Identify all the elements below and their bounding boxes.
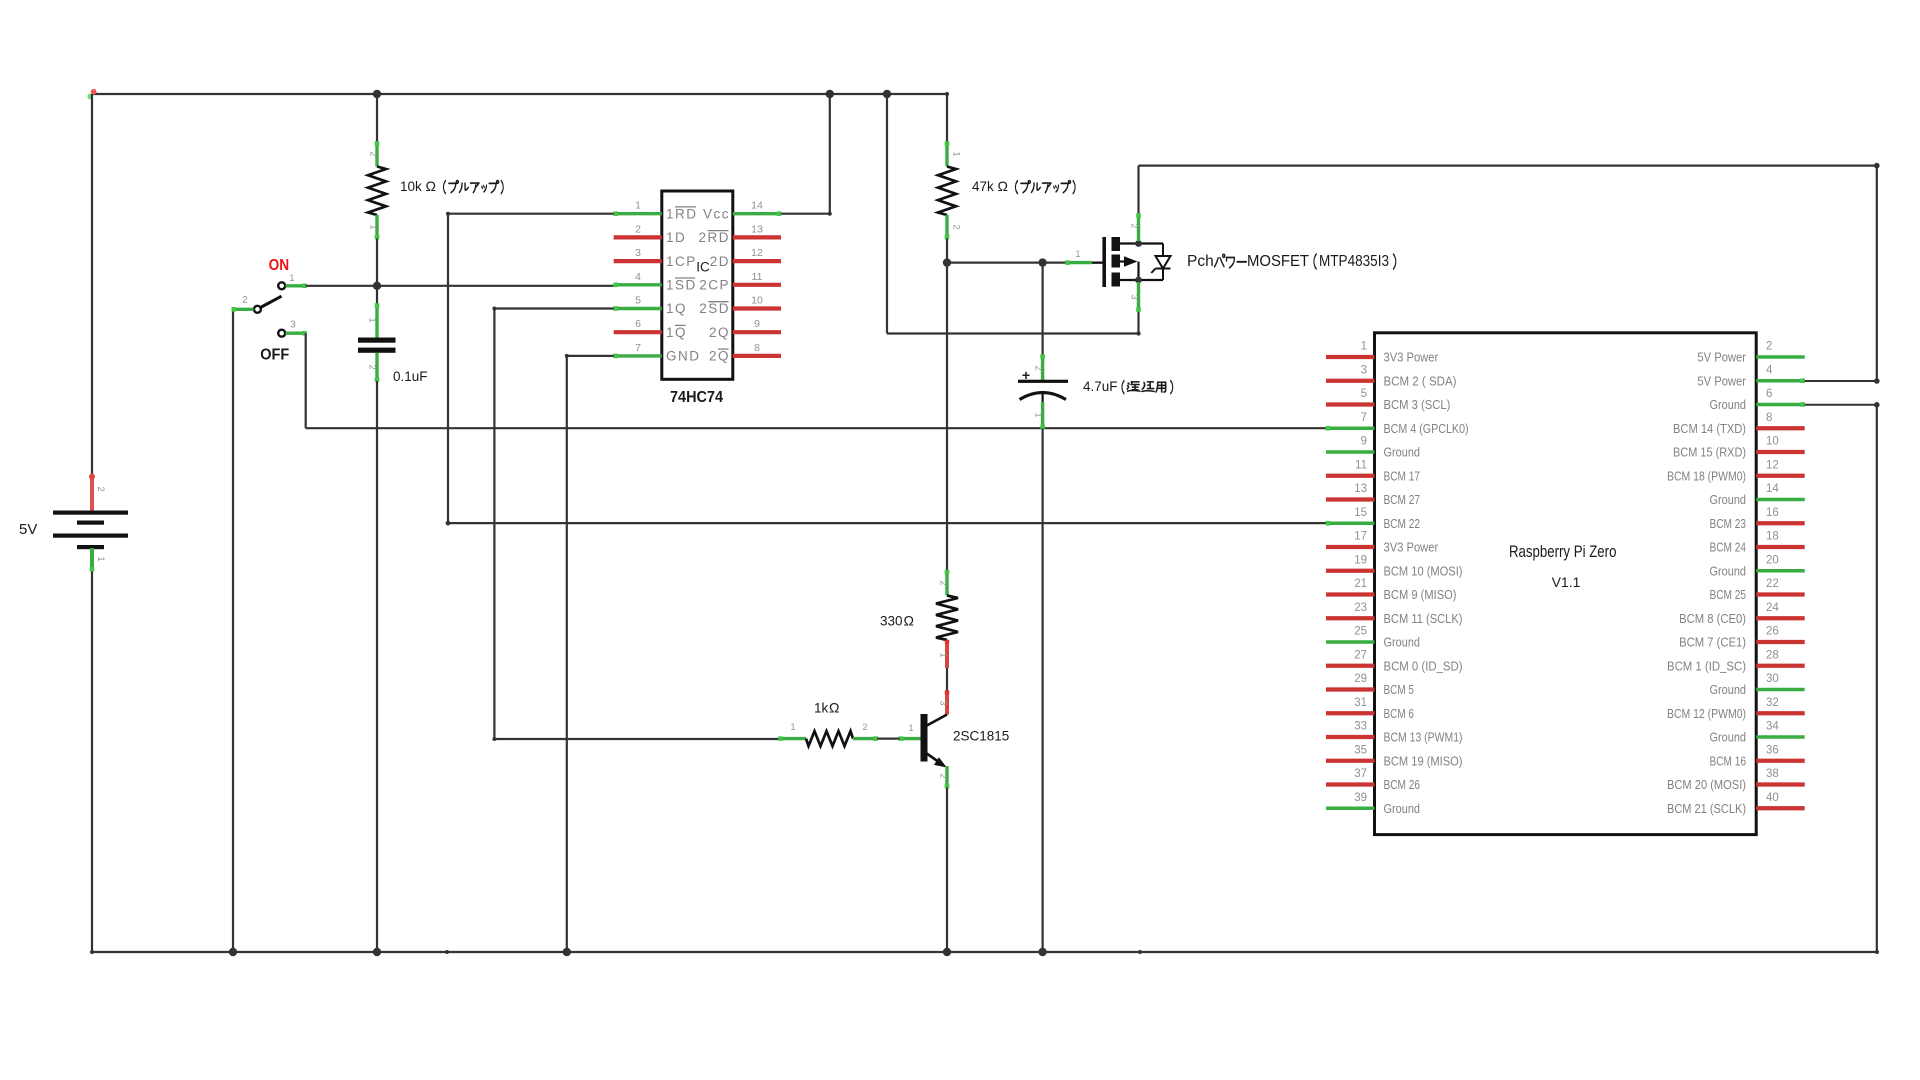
svg-text:GND: GND bbox=[666, 349, 701, 364]
IC U1 pin 14 stub bbox=[733, 211, 782, 216]
svg-text:74HC74: 74HC74 bbox=[670, 389, 723, 406]
Pi pin 24 stub BCM 8 (CE0) bbox=[1756, 616, 1805, 620]
svg-text:4: 4 bbox=[1766, 364, 1773, 376]
wire IC pin14 Vcc to top rail bbox=[781, 94, 832, 216]
svg-text:2SC1815: 2SC1815 bbox=[953, 728, 1009, 743]
junction ground rail x=947 bbox=[943, 948, 951, 956]
wire IC pin1 reset line bbox=[446, 212, 1327, 526]
IC U1 pin 6 stub bbox=[614, 330, 662, 334]
Pi pin 14 stub Ground bbox=[1756, 498, 1805, 501]
svg-text:4: 4 bbox=[635, 271, 641, 283]
Pi pin 39 stub Ground bbox=[1326, 807, 1375, 810]
svg-text:17: 17 bbox=[1354, 531, 1367, 543]
transistor Q1 2SC1815 body bbox=[921, 714, 948, 768]
mosfet drain pin 2 bbox=[1136, 213, 1141, 241]
svg-text:40: 40 bbox=[1766, 792, 1779, 804]
IC U1 pin 1 stub bbox=[613, 211, 662, 216]
svg-text:BCM 22: BCM 22 bbox=[1384, 516, 1421, 531]
resistor R2 47k body bbox=[938, 167, 956, 216]
resistor R4 1k pin1 bbox=[778, 736, 806, 741]
Pi pin 17 stub 3V3 Power bbox=[1326, 545, 1375, 549]
label Pch power MOSFET (MTP4835I3) bbox=[1187, 253, 1396, 270]
svg-text:13: 13 bbox=[751, 223, 763, 235]
Pi pin 22 stub BCM 25 bbox=[1756, 592, 1805, 596]
junction right rail pin6 bbox=[1874, 402, 1880, 408]
IC U1 port label 1Q bbox=[666, 325, 687, 340]
wire Pi pin4 to right rail bbox=[1805, 380, 1877, 382]
svg-text:2: 2 bbox=[952, 224, 962, 229]
transistor Q1 emitter pin 2 bbox=[945, 766, 950, 788]
Pi pin 32 stub BCM 12 (PWM0) bbox=[1756, 711, 1805, 715]
svg-text:1: 1 bbox=[1075, 249, 1080, 259]
svg-text:BCM 19 (MISO): BCM 19 (MISO) bbox=[1384, 753, 1463, 768]
svg-text:5: 5 bbox=[1361, 388, 1367, 400]
Pi pin 11 stub BCM 17 bbox=[1326, 474, 1375, 478]
Pi pin 21 stub BCM 9 (MISO) bbox=[1326, 592, 1375, 596]
Pi pin 9 stub Ground bbox=[1326, 450, 1375, 453]
junction ground rail x=377 bbox=[373, 948, 381, 956]
IC U1 port label 2Q (right) bbox=[709, 325, 730, 340]
svg-text:2Q: 2Q bbox=[709, 325, 730, 340]
Pi pin 28 stub BCM 1 (ID_SC) bbox=[1756, 664, 1805, 668]
resistor R3 330 pin2 bbox=[945, 570, 950, 596]
Pi pin 25 stub Ground bbox=[1326, 640, 1375, 643]
svg-text:11: 11 bbox=[752, 271, 763, 283]
Pi pin 23 stub BCM 11 (SCLK) bbox=[1326, 616, 1375, 620]
IC U1 port label Vcc (right) bbox=[703, 206, 730, 221]
Pi pin 26 stub BCM 7 (CE1) bbox=[1756, 640, 1805, 644]
svg-text:7: 7 bbox=[635, 342, 641, 354]
Pi pin 16 stub BCM 23 bbox=[1756, 521, 1805, 525]
svg-text:38: 38 bbox=[1766, 768, 1779, 780]
wire top rail end to 47k bbox=[946, 94, 948, 142]
wire node to C1 bbox=[376, 286, 378, 304]
svg-text:2RD: 2RD bbox=[698, 230, 730, 245]
svg-text:10k: 10k bbox=[400, 179, 422, 194]
Pi pin 3 stub BCM 2 ( SDA) bbox=[1326, 379, 1375, 383]
svg-text:BCM 17: BCM 17 bbox=[1384, 468, 1421, 483]
wire gate node horizontal bbox=[947, 262, 1104, 264]
svg-text:33: 33 bbox=[1354, 721, 1367, 733]
svg-text:V1.1: V1.1 bbox=[1552, 574, 1581, 590]
svg-text:Ω: Ω bbox=[426, 178, 436, 194]
mosfet source pin 3 bbox=[1136, 282, 1141, 312]
svg-text:1RD: 1RD bbox=[666, 206, 698, 221]
svg-text:1: 1 bbox=[289, 273, 294, 283]
junction top rail x=830 bbox=[826, 90, 834, 98]
wire OFF terminal down bbox=[305, 333, 307, 428]
Pi pin 5 stub BCM 3 (SCL) bbox=[1326, 402, 1375, 406]
svg-text:31: 31 bbox=[1354, 697, 1367, 709]
svg-text:1: 1 bbox=[939, 652, 949, 657]
svg-text:Pch: Pch bbox=[1187, 253, 1214, 270]
wire IC pin5 1Q to 1k resistor bbox=[492, 307, 779, 742]
svg-text:BCM 13 (PWM1): BCM 13 (PWM1) bbox=[1384, 730, 1463, 745]
svg-text:1: 1 bbox=[1361, 341, 1367, 353]
resistor R1 10k body bbox=[368, 167, 386, 216]
IC U1 pin 13 stub bbox=[733, 235, 781, 239]
IC U1 pin 4 stub bbox=[613, 283, 662, 288]
switch SW1 common terminal bbox=[254, 306, 261, 313]
svg-text:5V: 5V bbox=[19, 521, 37, 538]
wire Pi pin6 ground to right rail bbox=[1805, 404, 1877, 406]
svg-text:BCM 4 (GPCLK0): BCM 4 (GPCLK0) bbox=[1384, 421, 1469, 436]
svg-text:13: 13 bbox=[1354, 483, 1367, 495]
IC U1 port label 2SD (right) bbox=[699, 301, 730, 316]
svg-text:2: 2 bbox=[635, 223, 641, 235]
Pi pin 7 stub BCM 4 (GPCLK0) bbox=[1326, 426, 1375, 431]
svg-text:Vcc: Vcc bbox=[703, 206, 730, 221]
capacitor C2 4.7uF pin1 bbox=[1040, 402, 1045, 429]
wire 47k to gate node bbox=[946, 239, 948, 263]
svg-text:Raspberry Pi Zero: Raspberry Pi Zero bbox=[1509, 542, 1617, 561]
wire ON node to IC pin4 (set line) bbox=[306, 285, 614, 287]
svg-text:3: 3 bbox=[1361, 364, 1367, 376]
svg-text:1: 1 bbox=[368, 317, 378, 322]
Pi pin 4 stub 5V Power bbox=[1756, 378, 1805, 383]
svg-text:BCM 25: BCM 25 bbox=[1710, 587, 1747, 602]
mosfet body diode bbox=[1151, 244, 1170, 281]
svg-text:12: 12 bbox=[1766, 459, 1779, 471]
svg-text:36: 36 bbox=[1766, 744, 1779, 756]
resistor R1 10k pin2 bbox=[375, 141, 380, 166]
Pi pin 10 stub BCM 15 (RXD) bbox=[1756, 450, 1805, 454]
IC U1 port label 2CP (right) bbox=[699, 278, 730, 293]
svg-text:BCM 9 (MISO): BCM 9 (MISO) bbox=[1384, 587, 1457, 602]
IC U1 pin 5 stub bbox=[613, 306, 662, 311]
svg-text:BCM 0 (ID_SD): BCM 0 (ID_SD) bbox=[1384, 658, 1463, 673]
svg-text:BCM 1 (ID_SC): BCM 1 (ID_SC) bbox=[1667, 658, 1746, 673]
wire emitter to ground rail bbox=[946, 788, 948, 953]
IC U1 port label 2Q (right) bbox=[709, 349, 730, 364]
wire gate node down to 330 bbox=[946, 263, 948, 571]
svg-text:25: 25 bbox=[1354, 626, 1367, 638]
svg-text:28: 28 bbox=[1766, 649, 1779, 661]
svg-text:14: 14 bbox=[751, 200, 763, 212]
svg-text:BCM 26: BCM 26 bbox=[1384, 777, 1421, 792]
svg-text:BCM 2 ( SDA): BCM 2 ( SDA) bbox=[1384, 373, 1457, 388]
Pi pin 6 stub Ground bbox=[1756, 402, 1805, 407]
IC U1 port label 1SD bbox=[666, 278, 697, 293]
svg-text:5V Power: 5V Power bbox=[1697, 350, 1746, 365]
IC U1 port label 1Q bbox=[666, 301, 687, 316]
svg-text:Ground: Ground bbox=[1710, 397, 1747, 412]
svg-text:12: 12 bbox=[751, 247, 763, 259]
svg-text:BCM 12 (PWM0): BCM 12 (PWM0) bbox=[1667, 706, 1746, 721]
mosfet gate pin 1 bbox=[1065, 260, 1102, 265]
Pi pin 13 stub BCM 27 bbox=[1326, 497, 1375, 501]
svg-text:Ω: Ω bbox=[904, 613, 914, 629]
svg-text:Ground: Ground bbox=[1710, 492, 1747, 507]
svg-text:BCM 5: BCM 5 bbox=[1384, 682, 1414, 697]
svg-text:Ground: Ground bbox=[1384, 445, 1421, 460]
junction 10k bottom node bbox=[373, 282, 381, 290]
resistor R4 1k pin2 bbox=[853, 736, 878, 741]
junction ground rail x=567 bbox=[563, 948, 571, 956]
transistor Q2 Pch power MOSFET bbox=[1102, 237, 1163, 287]
junction gate node x=1042.6 bbox=[1038, 258, 1046, 266]
svg-text:330: 330 bbox=[880, 614, 903, 629]
wire OFF/BCM4 line bbox=[306, 427, 1327, 429]
junction ground rail x=1042.6 bbox=[1038, 948, 1046, 956]
Pi pin 36 stub BCM 16 bbox=[1756, 759, 1805, 763]
wire 1k to base bbox=[877, 737, 900, 739]
svg-text:37: 37 bbox=[1354, 768, 1367, 780]
wire right rail down to ground bbox=[1876, 405, 1878, 952]
resistor R2 47k pin1 bbox=[945, 141, 950, 166]
svg-text:15: 15 bbox=[1354, 507, 1367, 519]
svg-text:2: 2 bbox=[1130, 223, 1140, 228]
Pi pin 38 stub BCM 20 (MOSI) bbox=[1756, 782, 1805, 786]
resistor R3 330 pin1 (red) bbox=[945, 640, 949, 668]
svg-text:34: 34 bbox=[1766, 721, 1779, 733]
IC U1 pin 8 stub bbox=[733, 354, 781, 358]
svg-text:2Q: 2Q bbox=[709, 349, 730, 364]
svg-text:32: 32 bbox=[1766, 697, 1779, 709]
svg-text:1: 1 bbox=[96, 556, 106, 561]
svg-text:21: 21 bbox=[1354, 578, 1367, 590]
Pi pin 34 stub Ground bbox=[1756, 735, 1805, 738]
svg-text:1: 1 bbox=[369, 224, 379, 229]
svg-text:2: 2 bbox=[242, 295, 248, 306]
IC U1 pin 2 stub bbox=[614, 235, 662, 239]
IC U2 Raspberry Pi Zero body bbox=[1375, 333, 1757, 835]
svg-text:BCM 23: BCM 23 bbox=[1710, 516, 1747, 531]
IC U1 pin 10 stub bbox=[733, 306, 781, 310]
wire right rail down to Pi pin4 bbox=[1876, 166, 1878, 381]
wire 330 to transistor collector bbox=[946, 668, 948, 691]
Pi pin 30 stub Ground bbox=[1756, 688, 1805, 691]
svg-text:2SD: 2SD bbox=[699, 301, 730, 316]
wire gate node down to C2 bbox=[1041, 263, 1043, 355]
svg-text:Ω: Ω bbox=[829, 700, 839, 716]
svg-text:3: 3 bbox=[635, 247, 641, 259]
label 4.7uF delay bbox=[1083, 379, 1173, 394]
node start marker (green+red) bbox=[87, 94, 93, 100]
svg-text:BCM 27: BCM 27 bbox=[1384, 492, 1421, 507]
svg-text:2: 2 bbox=[939, 580, 949, 585]
wire C2 to ground rail bbox=[1041, 429, 1043, 953]
svg-text:2: 2 bbox=[368, 364, 378, 369]
IC U1 pin 12 stub bbox=[733, 259, 781, 263]
svg-text:1Q: 1Q bbox=[666, 325, 687, 340]
junction top rail x=377 bbox=[373, 90, 381, 98]
resistor R1 10k pin1 bbox=[375, 215, 380, 239]
svg-text:30: 30 bbox=[1766, 673, 1779, 685]
svg-text:2: 2 bbox=[369, 151, 379, 156]
svg-text:Ground: Ground bbox=[1710, 563, 1747, 578]
switch SW1 OFF pin stub bbox=[286, 331, 307, 336]
svg-text:9: 9 bbox=[1361, 436, 1367, 448]
svg-text:24: 24 bbox=[1766, 602, 1779, 614]
svg-text:1k: 1k bbox=[814, 701, 829, 716]
mosfet junction source bbox=[1135, 277, 1142, 284]
svg-text:BCM 21 (SCLK): BCM 21 (SCLK) bbox=[1667, 801, 1746, 816]
wire C1 to ground rail bbox=[376, 381, 378, 952]
switch SW1 common pin stub bbox=[232, 307, 254, 312]
switch SW1 OFF terminal bbox=[278, 330, 285, 337]
svg-text:BCM 11 (SCLK): BCM 11 (SCLK) bbox=[1384, 611, 1463, 626]
svg-text:22: 22 bbox=[1766, 578, 1779, 590]
svg-text:OFF: OFF bbox=[260, 346, 289, 363]
wire rail to 10k bbox=[376, 94, 378, 142]
junction right rail pin4 bbox=[1874, 378, 1880, 384]
capacitor C1 0.1uF plates bbox=[358, 338, 396, 353]
switch SW1 ON pin stub bbox=[286, 284, 307, 289]
svg-text:Ground: Ground bbox=[1710, 730, 1747, 745]
svg-text:ON: ON bbox=[269, 257, 290, 274]
svg-text:29: 29 bbox=[1354, 673, 1367, 685]
svg-text:6: 6 bbox=[1766, 388, 1772, 400]
svg-text:27: 27 bbox=[1354, 649, 1367, 661]
svg-text:2: 2 bbox=[96, 486, 106, 491]
Pi pin 19 stub BCM 10 (MOSI) bbox=[1326, 569, 1375, 573]
IC U1 port label 1D bbox=[666, 230, 686, 245]
svg-text:BCM 8 (CE0): BCM 8 (CE0) bbox=[1679, 611, 1746, 626]
transistor Q1 base pin 1 bbox=[899, 736, 921, 741]
wire battery positive to rail bbox=[91, 94, 93, 475]
Pi pin 20 stub Ground bbox=[1756, 569, 1805, 572]
svg-text:2: 2 bbox=[1034, 365, 1044, 370]
wire IC pin7 GND down bbox=[565, 354, 614, 952]
svg-text:7: 7 bbox=[1361, 412, 1367, 424]
svg-text:19: 19 bbox=[1354, 554, 1367, 566]
svg-text:26: 26 bbox=[1766, 626, 1779, 638]
resistor R2 47k pin2 bbox=[945, 215, 950, 239]
Pi pin 15 stub BCM 22 bbox=[1326, 521, 1375, 526]
resistor R3 330 body bbox=[936, 596, 958, 641]
svg-text:3: 3 bbox=[290, 320, 296, 331]
svg-text:BCM 20 (MOSI): BCM 20 (MOSI) bbox=[1667, 777, 1746, 792]
Pi pin 27 stub BCM 0 (ID_SD) bbox=[1326, 664, 1375, 668]
svg-text:BCM 6: BCM 6 bbox=[1384, 706, 1414, 721]
svg-text:BCM 10 (MOSI): BCM 10 (MOSI) bbox=[1384, 563, 1463, 578]
svg-text:1: 1 bbox=[952, 151, 962, 156]
svg-text:1SD: 1SD bbox=[666, 278, 697, 293]
svg-text:1: 1 bbox=[908, 723, 913, 733]
svg-text:BCM 14 (TXD): BCM 14 (TXD) bbox=[1673, 421, 1746, 436]
svg-text:MTP4835I3: MTP4835I3 bbox=[1319, 253, 1389, 270]
switch SW1 lever bbox=[260, 296, 282, 308]
svg-text:6: 6 bbox=[635, 318, 641, 330]
Pi pin 29 stub BCM 5 bbox=[1326, 687, 1375, 691]
svg-text:2: 2 bbox=[862, 722, 867, 732]
mosfet junction drain bbox=[1135, 240, 1142, 247]
IC U1 port label 2RD (right) bbox=[698, 230, 730, 245]
transistor Q1 collector pin 3 (red) bbox=[945, 690, 949, 714]
svg-text:39: 39 bbox=[1354, 792, 1367, 804]
svg-text:Ground: Ground bbox=[1710, 682, 1747, 697]
IC U1 pin 7 stub bbox=[613, 354, 662, 359]
wire battery negative down bbox=[91, 570, 93, 952]
svg-text:11: 11 bbox=[1355, 459, 1367, 471]
svg-text:0.1uF: 0.1uF bbox=[393, 369, 428, 384]
svg-text:5: 5 bbox=[635, 295, 641, 307]
svg-text:18: 18 bbox=[1766, 531, 1779, 543]
wire top 5V rail bbox=[92, 93, 947, 95]
svg-text:BCM 16: BCM 16 bbox=[1710, 753, 1747, 768]
svg-text:3V3 Power: 3V3 Power bbox=[1384, 350, 1439, 365]
svg-text:2: 2 bbox=[939, 773, 949, 778]
svg-text:8: 8 bbox=[754, 342, 760, 354]
svg-text:BCM 18 (PWM0): BCM 18 (PWM0) bbox=[1667, 468, 1746, 483]
svg-text:10: 10 bbox=[1766, 436, 1779, 448]
svg-text:35: 35 bbox=[1354, 744, 1367, 756]
IC U1 port label 2D (right) bbox=[710, 254, 730, 269]
wire 10k to node bbox=[376, 239, 378, 286]
Pi pin 35 stub BCM 19 (MISO) bbox=[1326, 759, 1375, 763]
svg-text:16: 16 bbox=[1766, 507, 1779, 519]
capacitor C1 0.1uF pin2 bbox=[375, 353, 380, 382]
capacitor C2 4.7uF pin2 bbox=[1040, 354, 1045, 380]
IC U1 port label 1CP bbox=[666, 254, 697, 269]
svg-text:10: 10 bbox=[751, 295, 763, 307]
svg-text:2: 2 bbox=[1766, 341, 1772, 353]
svg-text:MOSFET: MOSFET bbox=[1247, 253, 1309, 270]
svg-text:BCM 3 (SCL): BCM 3 (SCL) bbox=[1384, 397, 1451, 412]
op IC U1 74HC74 body bbox=[662, 191, 733, 379]
svg-text:1CP: 1CP bbox=[666, 254, 697, 269]
junction ground rail x=233 bbox=[229, 948, 237, 956]
capacitor C1 0.1uF pin1 bbox=[375, 303, 380, 337]
Pi pin 40 stub BCM 21 (SCLK) bbox=[1756, 806, 1805, 810]
IC U1 port label GND bbox=[666, 349, 701, 364]
junction bottom rail endpoints bbox=[90, 950, 94, 954]
wire mosfet source net: rail down x=887 bbox=[887, 94, 1141, 336]
svg-text:8: 8 bbox=[1766, 412, 1772, 424]
Pi pin 18 stub BCM 24 bbox=[1756, 545, 1805, 549]
svg-text:2D: 2D bbox=[710, 254, 730, 269]
Pi pin 12 stub BCM 18 (PWM0) bbox=[1756, 474, 1805, 478]
switch SW1 ON terminal bbox=[278, 282, 285, 289]
wire mosfet drain to top-right rail bbox=[1139, 163, 1880, 214]
svg-text:2CP: 2CP bbox=[699, 278, 730, 293]
IC U1 port label 1RD bbox=[666, 206, 698, 221]
svg-text:3: 3 bbox=[1130, 294, 1140, 299]
wire bottom ground rail bbox=[92, 951, 1877, 953]
junction top rail x=887 bbox=[883, 90, 891, 98]
svg-text:BCM 15 (RXD): BCM 15 (RXD) bbox=[1673, 445, 1746, 460]
Pi pin 33 stub BCM 13 (PWM1) bbox=[1326, 735, 1375, 739]
svg-text:47k: 47k bbox=[972, 179, 994, 194]
resistor R4 1k body bbox=[806, 731, 853, 746]
svg-text:4.7uF: 4.7uF bbox=[1083, 379, 1118, 394]
wire switch common to ground rail bbox=[232, 309, 234, 952]
junction gate node x=947 bbox=[943, 258, 951, 266]
Pi pin 37 stub BCM 26 bbox=[1326, 782, 1375, 786]
svg-text:IC: IC bbox=[696, 260, 710, 275]
svg-text:23: 23 bbox=[1354, 602, 1367, 614]
svg-text:1D: 1D bbox=[666, 230, 686, 245]
battery BT1 5V bbox=[53, 474, 128, 572]
svg-text:5V Power: 5V Power bbox=[1697, 373, 1746, 388]
svg-text:Ground: Ground bbox=[1384, 801, 1421, 816]
svg-text:1: 1 bbox=[790, 722, 795, 732]
svg-text:Ω: Ω bbox=[998, 178, 1008, 194]
svg-text:Ground: Ground bbox=[1384, 635, 1421, 650]
capacitor C2 4.7uF plates bbox=[1018, 380, 1068, 402]
IC U1 pin 11 stub bbox=[733, 283, 781, 287]
svg-text:BCM 7 (CE1): BCM 7 (CE1) bbox=[1679, 635, 1746, 650]
IC U1 pin 9 stub bbox=[733, 330, 781, 334]
svg-text:14: 14 bbox=[1766, 483, 1779, 495]
svg-text:3: 3 bbox=[939, 700, 949, 705]
Pi pin 2 stub 5V Power bbox=[1756, 355, 1805, 358]
svg-text:1: 1 bbox=[1034, 412, 1044, 417]
svg-text:20: 20 bbox=[1766, 554, 1779, 566]
svg-text:3V3 Power: 3V3 Power bbox=[1384, 540, 1439, 555]
Pi pin 31 stub BCM 6 bbox=[1326, 711, 1375, 715]
